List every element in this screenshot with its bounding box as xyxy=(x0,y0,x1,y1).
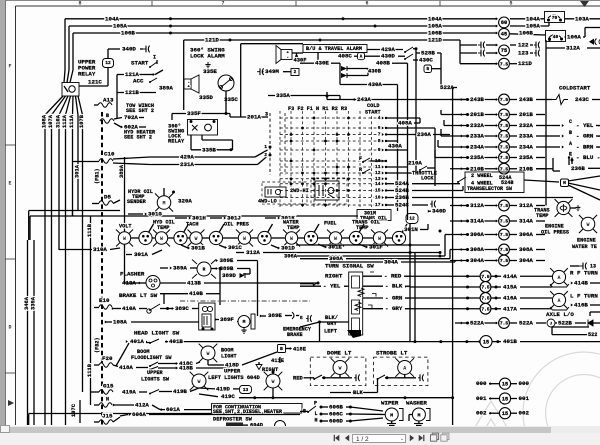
svg-text:1: 1 xyxy=(264,144,267,150)
fuse row 417A xyxy=(405,303,552,314)
solenoid 4WD-LO xyxy=(258,182,309,204)
wire 312A g xyxy=(236,249,440,256)
svg-text:D5: D5 xyxy=(104,194,111,201)
svg-text:522B: 522B xyxy=(558,320,572,327)
svg-text:233A: 233A xyxy=(470,133,484,140)
svg-text:416B: 416B xyxy=(574,302,588,309)
svg-text:408B: 408B xyxy=(376,60,390,67)
svg-text:7.5: 7.5 xyxy=(500,219,509,225)
svg-text:415A: 415A xyxy=(503,284,517,291)
wire 418B xyxy=(158,365,230,372)
speaker BU alarm xyxy=(276,46,306,64)
wire 410B xyxy=(160,290,220,304)
svg-text:335F: 335F xyxy=(187,110,201,117)
watermark logo xyxy=(464,352,600,445)
svg-text:13: 13 xyxy=(243,387,249,393)
svg-text:7.5: 7.5 xyxy=(500,97,509,103)
wire 301A g xyxy=(126,250,162,258)
washer motor partial xyxy=(275,421,286,432)
svg-text:R F TURN: R F TURN xyxy=(570,270,598,277)
svg-text:122: 122 xyxy=(518,42,529,49)
svg-text:121D: 121D xyxy=(205,37,219,44)
svg-text:104A: 104A xyxy=(526,15,540,22)
svg-text:RIGHT: RIGHT xyxy=(325,273,343,280)
fuse row 314A xyxy=(450,216,569,236)
svg-text:314A: 314A xyxy=(519,218,533,225)
svg-text:12: 12 xyxy=(105,60,111,66)
wire relay drop xyxy=(202,135,233,150)
lamp R F TURN xyxy=(550,268,600,287)
svg-text:LIGHT: LIGHT xyxy=(221,353,237,359)
wire 346A vertical xyxy=(24,240,30,425)
connector H xyxy=(524,176,600,200)
svg-text:W: W xyxy=(160,236,163,242)
wire trunk 3 xyxy=(414,253,417,344)
svg-text:301D: 301D xyxy=(281,245,295,252)
svg-text:339A: 339A xyxy=(30,296,36,310)
svg-text:401B: 401B xyxy=(503,338,517,345)
switch START xyxy=(131,54,157,68)
wire 201A xyxy=(230,111,268,120)
svg-text:BLK: BLK xyxy=(353,390,363,396)
fuse row 414A xyxy=(405,271,552,282)
svg-text:401B: 401B xyxy=(169,338,183,345)
svg-text:7: 7 xyxy=(378,132,381,138)
svg-text:- YEL -: - YEL - xyxy=(323,283,347,290)
lamp 604D box xyxy=(226,423,264,429)
svg-text:524B: 524B xyxy=(501,180,513,186)
svg-text:J15: J15 xyxy=(102,413,113,420)
svg-text:389A: 389A xyxy=(173,265,187,272)
svg-text:12: 12 xyxy=(409,216,415,222)
svg-text:FUEL: FUEL xyxy=(324,220,336,226)
svg-text:15: 15 xyxy=(502,411,508,417)
svg-text:430F: 430F xyxy=(294,57,307,63)
wire steps 232-235 xyxy=(435,120,450,158)
connector 12b xyxy=(406,214,418,224)
svg-text:201B: 201B xyxy=(519,111,533,118)
wire 335B xyxy=(191,135,233,153)
svg-text:40: 40 xyxy=(553,34,559,40)
wire RED xyxy=(363,272,411,280)
svg-text:RED: RED xyxy=(293,375,303,381)
wire 430A mid xyxy=(340,81,398,211)
svg-text:START: START xyxy=(131,60,149,67)
svg-text:G15: G15 xyxy=(103,383,114,390)
fuse row 415A xyxy=(405,282,552,293)
svg-text:430D: 430D xyxy=(381,53,395,60)
svg-text:419B: 419B xyxy=(173,388,187,395)
svg-text:SENDER: SENDER xyxy=(127,199,147,205)
svg-text:B/U & TRAVEL ALARM: B/U & TRAVEL ALARM xyxy=(306,46,362,52)
svg-text:430C: 430C xyxy=(419,57,433,64)
svg-text:8: 8 xyxy=(378,138,381,144)
svg-text:COLD: COLD xyxy=(367,103,379,109)
wire 236B xyxy=(386,194,573,201)
horn 335C xyxy=(218,75,238,103)
svg-text:121D: 121D xyxy=(518,60,532,67)
svg-text:121B: 121B xyxy=(125,89,139,96)
wire 121C xyxy=(79,68,108,87)
svg-text:235A: 235A xyxy=(470,154,484,161)
svg-text:12: 12 xyxy=(375,170,381,176)
wire 301J xyxy=(210,215,241,222)
svg-text:430A: 430A xyxy=(388,143,402,150)
svg-text:606C: 606C xyxy=(329,411,343,418)
fuse row 234A xyxy=(450,141,600,153)
svg-text:W: W xyxy=(197,379,200,385)
wire 301A vertical xyxy=(74,115,80,211)
wire 301D xyxy=(271,245,295,252)
svg-text:001: 001 xyxy=(476,395,487,402)
wire 389E r xyxy=(260,312,312,322)
svg-text:606D: 606D xyxy=(329,418,343,425)
svg-text:418A: 418A xyxy=(119,364,133,371)
svg-text:106A: 106A xyxy=(567,34,581,41)
svg-text:111B: 111B xyxy=(87,363,93,377)
wire 522C xyxy=(552,327,597,338)
svg-text:LEFT: LEFT xyxy=(324,328,338,334)
svg-text:312A: 312A xyxy=(246,249,260,256)
svg-text:335B: 335B xyxy=(202,146,216,153)
svg-text:7.5: 7.5 xyxy=(500,203,509,209)
svg-text:W: W xyxy=(123,236,126,242)
gauge circles row xyxy=(116,224,407,247)
label LEFT LIGHTS 604D xyxy=(208,368,261,381)
svg-text:ACC: ACC xyxy=(133,78,144,85)
wire GRY xyxy=(363,305,411,312)
svg-text:410B: 410B xyxy=(189,290,203,297)
wire relay feeds xyxy=(45,70,83,115)
svg-text:121C: 121C xyxy=(88,79,102,86)
wire 121B xyxy=(117,85,173,97)
fuse row 416A xyxy=(405,293,552,304)
cap 13 xyxy=(570,263,596,270)
wire 429A xyxy=(150,150,268,161)
gauge engine oil xyxy=(579,215,597,233)
wire 408B xyxy=(376,60,408,160)
svg-text:A: A xyxy=(569,141,572,147)
svg-text:7.5: 7.5 xyxy=(481,306,490,312)
fuse 75 xyxy=(499,45,510,56)
wire 301L xyxy=(265,215,295,222)
svg-text:413B: 413B xyxy=(187,280,201,287)
svg-text:201A: 201A xyxy=(247,114,261,121)
svg-text:107C: 107C xyxy=(71,403,77,417)
svg-text:389B: 389B xyxy=(220,265,234,272)
switch wiper xyxy=(300,400,318,423)
wire 301G xyxy=(128,211,162,218)
svg-text:W: W xyxy=(206,351,209,357)
label UPPER LIGHTS SW xyxy=(141,370,170,383)
fuse D5 xyxy=(92,194,120,206)
svg-text:7.5: 7.5 xyxy=(500,155,509,161)
wire 601A xyxy=(160,406,212,413)
svg-text:7.5: 7.5 xyxy=(481,274,490,280)
wire 418D xyxy=(208,352,277,369)
svg-text:401A: 401A xyxy=(130,338,144,345)
wire 301E xyxy=(318,244,342,251)
svg-text:L F TURN: L F TURN xyxy=(570,293,598,300)
wire 105A right xyxy=(510,23,549,30)
wire 522A vertical xyxy=(440,84,457,425)
wire 306A g xyxy=(284,235,450,260)
svg-text:H: H xyxy=(315,418,318,424)
svg-text:RELAY: RELAY xyxy=(168,138,185,144)
wire 108A b xyxy=(105,319,199,326)
turn signal switch body xyxy=(347,272,364,338)
svg-text:320A: 320A xyxy=(178,198,192,205)
svg-text:411E: 411E xyxy=(271,358,285,364)
svg-text:389A: 389A xyxy=(159,85,173,92)
svg-text:210A: 210A xyxy=(408,160,422,167)
svg-text:STROBE LT: STROBE LT xyxy=(376,350,408,357)
svg-text:232A: 232A xyxy=(470,122,484,129)
connector B sq xyxy=(278,345,307,353)
svg-text:WASHER: WASHER xyxy=(406,400,427,407)
wire 210A xyxy=(386,160,422,173)
svg-text:6: 6 xyxy=(378,125,381,131)
svg-text:A13: A13 xyxy=(103,97,114,104)
lamp left upper xyxy=(190,372,209,391)
svg-text:F20: F20 xyxy=(102,355,113,362)
wire BLK dome xyxy=(330,379,378,396)
svg-text:W: W xyxy=(334,236,337,242)
selector matrix grid xyxy=(280,111,380,207)
svg-text:45: 45 xyxy=(501,32,507,38)
relay UPPER POWER RELAY xyxy=(62,59,96,96)
svg-text:75: 75 xyxy=(501,48,507,54)
svg-text:OIL PRESS: OIL PRESS xyxy=(541,229,569,235)
svg-text:236A: 236A xyxy=(417,131,431,138)
svg-text:000: 000 xyxy=(519,380,530,387)
fuse row 304A xyxy=(450,255,545,266)
svg-text:104A: 104A xyxy=(105,15,119,22)
svg-text:430E: 430E xyxy=(315,60,329,67)
wire 301F xyxy=(359,244,383,251)
label RIGHT xyxy=(300,273,343,286)
svg-text:HEAD LIGHT SW: HEAD LIGHT SW xyxy=(134,330,180,337)
svg-text:232A: 232A xyxy=(519,122,533,129)
svg-text:107A: 107A xyxy=(48,114,54,128)
svg-text:B: B xyxy=(280,347,283,352)
wire 430A pin xyxy=(386,141,408,150)
fuse C10 xyxy=(73,151,151,165)
svg-text:C: C xyxy=(569,119,572,125)
svg-text:TURN SIGNAL SW: TURN SIGNAL SW xyxy=(325,263,374,270)
svg-text:+: + xyxy=(287,52,290,56)
svg-text:389C: 389C xyxy=(175,305,189,312)
svg-text:15: 15 xyxy=(483,339,489,345)
label HEAD LIGHT SW xyxy=(134,330,180,337)
wire 528B xyxy=(416,50,441,90)
svg-text:60: 60 xyxy=(501,20,507,26)
svg-text:312A: 312A xyxy=(519,202,533,209)
flasher relay R xyxy=(192,260,216,279)
wire 419D xyxy=(199,385,252,393)
wire 429A top xyxy=(367,46,418,167)
fuse row 000 xyxy=(476,378,529,389)
svg-text:6: 6 xyxy=(365,1,368,7)
svg-text:M: M xyxy=(390,412,393,418)
svg-text:111B: 111B xyxy=(87,223,93,237)
motor washer xyxy=(409,408,430,426)
cab dash-dot xyxy=(180,300,310,302)
svg-text:236B: 236B xyxy=(571,165,585,172)
wire 111A vertical xyxy=(69,114,75,216)
wire 106A xyxy=(548,28,600,42)
speaker 335D xyxy=(184,75,213,101)
wire 340D sel xyxy=(428,201,447,215)
svg-text:BRAKE: BRAKE xyxy=(287,332,303,338)
wire 121A xyxy=(117,70,163,118)
svg-text:002: 002 xyxy=(519,410,530,417)
svg-text:R: R xyxy=(359,167,362,173)
svg-text:108A: 108A xyxy=(41,114,47,128)
wire 301H xyxy=(175,215,206,222)
wire 349M xyxy=(257,68,299,75)
svg-text:FLASHER: FLASHER xyxy=(120,271,145,278)
svg-text:389F: 389F xyxy=(220,316,234,323)
wire 410A xyxy=(112,305,147,312)
svg-text:312A: 312A xyxy=(566,45,580,52)
wire 429A trunk xyxy=(415,167,417,173)
svg-text:308A: 308A xyxy=(519,246,533,253)
wire 524A xyxy=(386,180,460,187)
svg-text:9: 9 xyxy=(378,147,381,153)
svg-text:W: W xyxy=(243,236,246,242)
diode 522 xyxy=(588,312,600,327)
wire 401B row xyxy=(165,336,600,348)
svg-text:FLOODLIGHT SW: FLOODLIGHT SW xyxy=(131,355,172,361)
solenoid 2WD-HI xyxy=(311,178,347,204)
svg-text:201B: 201B xyxy=(470,111,484,118)
svg-text:WIPER: WIPER xyxy=(381,400,399,407)
enclosure travel alarm xyxy=(241,44,303,117)
svg-text:F: F xyxy=(8,63,11,69)
svg-text:C10: C10 xyxy=(104,151,115,158)
svg-text:000: 000 xyxy=(476,380,487,387)
svg-text:304A: 304A xyxy=(470,257,484,264)
svg-text:J: J xyxy=(550,322,552,326)
svg-text:COLDSTART: COLDSTART xyxy=(559,85,591,92)
ground dome xyxy=(333,374,360,381)
svg-text:106B: 106B xyxy=(121,30,135,37)
svg-text:430B: 430B xyxy=(368,69,382,75)
fuse row 233A xyxy=(450,130,600,142)
svg-text:P: P xyxy=(314,400,317,406)
label YEL xyxy=(300,283,349,290)
lamp L F TURN xyxy=(550,291,600,310)
box B/U TRAVEL ALARM xyxy=(303,45,367,53)
svg-text:123: 123 xyxy=(518,50,529,57)
gauge TRANS OIL box xyxy=(357,210,391,222)
wire 308A g xyxy=(300,250,450,263)
svg-text:DEFROSTER SW: DEFROSTER SW xyxy=(213,417,253,423)
svg-text:W: W xyxy=(290,236,293,242)
switch dome xyxy=(293,375,333,381)
fuse row 522A xyxy=(455,318,586,329)
svg-text:2 WHEEL: 2 WHEEL xyxy=(471,173,493,179)
wire AXLE L/O xyxy=(546,311,574,318)
svg-text:308A: 308A xyxy=(329,255,343,262)
svg-text:234A: 234A xyxy=(519,144,533,151)
wire 243A xyxy=(326,92,471,103)
svg-text:W: W xyxy=(586,222,589,228)
svg-text:301N: 301N xyxy=(404,226,418,233)
svg-text:310A: 310A xyxy=(93,246,107,253)
svg-text:414A: 414A xyxy=(503,273,517,280)
svg-text:301B: 301B xyxy=(191,245,205,252)
svg-text:335D: 335D xyxy=(199,94,213,101)
wire 107C xyxy=(71,400,80,423)
wire 606D xyxy=(320,418,384,425)
svg-text:M: M xyxy=(417,412,420,418)
wire 106B to breaker xyxy=(510,30,545,37)
svg-text:606A: 606A xyxy=(132,411,146,418)
strobe enclosure xyxy=(374,357,428,386)
svg-text:B: B xyxy=(106,113,109,119)
svg-text:419C: 419C xyxy=(221,393,235,400)
label BRAKE LT SW xyxy=(119,292,158,299)
svg-text:SEE SHT 2: SEE SHT 2 xyxy=(124,134,152,140)
svg-text:408C: 408C xyxy=(338,53,352,60)
svg-text:F: F xyxy=(359,156,362,162)
svg-text:001: 001 xyxy=(519,395,530,402)
wire 304A g xyxy=(330,259,455,266)
svg-text:UPPER: UPPER xyxy=(224,368,241,374)
gauge labels xyxy=(119,219,380,231)
fuse row 210B xyxy=(450,156,600,174)
wire 301B xyxy=(181,245,205,252)
svg-text:A: A xyxy=(557,275,560,281)
wire 105A bus xyxy=(69,23,498,70)
svg-text:W: W xyxy=(271,379,274,385)
wire 310A xyxy=(59,246,120,253)
wire 112A vertical xyxy=(62,114,68,425)
fuse J15 xyxy=(94,413,120,425)
wire 524C xyxy=(386,202,428,209)
fuse row 201B xyxy=(441,109,545,120)
fuse link B xyxy=(100,113,146,131)
svg-text:5: 5 xyxy=(509,1,512,7)
svg-text:LOCK ALARM: LOCK ALARM xyxy=(190,53,225,60)
svg-text:304A: 304A xyxy=(384,259,398,266)
svg-text:103A: 103A xyxy=(575,15,589,22)
fuse row 306A xyxy=(450,229,597,250)
wire trunk 2 xyxy=(409,224,411,342)
fuse row 235A xyxy=(450,151,600,164)
svg-text:417A: 417A xyxy=(503,305,517,312)
svg-text:389E: 389E xyxy=(268,312,282,319)
svg-text:389E: 389E xyxy=(220,257,234,264)
wire E10 xyxy=(94,297,112,309)
svg-text:L: L xyxy=(315,411,318,417)
svg-text:A: A xyxy=(557,298,560,304)
sender trans temp xyxy=(555,199,581,217)
svg-text:8: 8 xyxy=(78,1,81,7)
label TURN SIGNAL SW xyxy=(325,263,374,270)
wire 430C xyxy=(413,57,433,64)
svg-text:15: 15 xyxy=(502,396,508,402)
dashed col pins xyxy=(264,113,285,175)
label DEFROSTER SW xyxy=(29,414,253,426)
svg-text:429A: 429A xyxy=(180,154,194,161)
svg-text:(FB1): (FB1) xyxy=(94,168,100,184)
wire gauge feed a xyxy=(29,211,120,241)
svg-text:W: W xyxy=(194,236,197,242)
wire 335F xyxy=(172,91,230,120)
